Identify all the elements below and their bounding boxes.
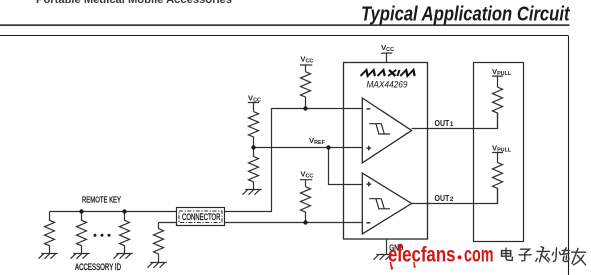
ground under R3 [114, 254, 133, 259]
junction dot remote key / R3 [122, 209, 126, 213]
svg-text:REMOTE KEY: REMOTE KEY [82, 195, 121, 205]
U1A hysteresis symbol [369, 124, 390, 134]
junction dot remote key / R2 [79, 209, 83, 213]
svg-text:VCC: VCC [300, 169, 313, 179]
U1B hysteresis symbol [369, 199, 390, 209]
right page border [568, 36, 570, 275]
svg-text:ACCESSORY ID: ACCESSORY ID [75, 262, 121, 272]
pull-up resistors box [474, 63, 524, 242]
U1B minus sign [366, 222, 370, 224]
resistor R9 (OUT1 pull-up) [493, 87, 503, 128]
op-amp U1A comparator triangle [362, 98, 411, 163]
ground under IC [374, 255, 393, 260]
wire: VREF line to comparator A non-inverting input [254, 147, 363, 149]
junction dot VREF / R5 R6 [251, 145, 255, 149]
U1A plus sign [366, 146, 371, 151]
wire: accessory id lower rail to comparator B inverting input [159, 222, 363, 224]
top rule 2 [0, 35, 568, 37]
watermark red splash dot [398, 244, 403, 249]
U1B plus sign [366, 182, 371, 187]
resistor R1 [45, 212, 55, 254]
junction dot VREF branch [326, 145, 330, 149]
ground under R1 [39, 254, 58, 259]
resistor R5 (VREF divider top) [249, 112, 259, 148]
svg-text:OUT: OUT [435, 118, 450, 128]
op-amp IC U1 MAX44269 box [344, 63, 428, 240]
watermark chinese char fa [536, 247, 550, 262]
watermark chinese char you [572, 248, 586, 264]
wire: REMOTE KEY line [50, 211, 177, 213]
watermark chinese char shao [552, 248, 569, 262]
svg-text:Portable Medical Mobile Access: Portable Medical Mobile Accessories [36, 0, 232, 6]
wire: VREF branch to comparator B non-inverting input [329, 148, 363, 185]
U1A minus sign [366, 108, 370, 110]
svg-text:2: 2 [450, 196, 454, 203]
op-amp U1B comparator triangle [362, 173, 411, 234]
wire: OUT1 from comparator A to pull-up R9 [412, 113, 498, 129]
junction dot R7 / IN A- line [303, 106, 307, 110]
connector J1 inner dash-dot border [179, 211, 222, 223]
svg-text:1: 1 [450, 121, 454, 128]
svg-text:com: com [464, 244, 494, 267]
svg-text:VCC: VCC [381, 43, 394, 53]
wire: OUT2 from comparator B to pull-up R10 [412, 188, 498, 203]
resistor R4 [154, 223, 164, 263]
resistor R8 (accessory id pull-up) [301, 187, 311, 223]
resistor R6 (VREF divider bottom) [249, 148, 259, 190]
svg-text:VCC: VCC [300, 55, 313, 65]
svg-text:CONNECTOR: CONNECTOR [182, 212, 221, 222]
svg-text:elecfans: elecfans [388, 244, 456, 267]
ground under R4 [148, 263, 167, 268]
watermark separator dot [458, 255, 462, 259]
svg-text:VCC: VCC [248, 93, 261, 103]
MAXIM logo [361, 70, 416, 76]
watermark drip under e [390, 262, 391, 267]
top rule 1 [0, 24, 570, 26]
svg-text:VREF: VREF [309, 136, 326, 146]
watermark chinese char zi [519, 249, 531, 261]
watermark chinese char dian [502, 248, 513, 260]
resistor R2 [77, 212, 87, 254]
resistor R10 (OUT2 pull-up) [493, 162, 503, 203]
connector J1 box [177, 208, 225, 226]
svg-text:OUT: OUT [435, 193, 450, 203]
junction dot R8 / lower rail [303, 220, 307, 224]
ground under R2 [71, 254, 90, 259]
ground under R6 [243, 190, 262, 195]
resistor R7 (remote key pull-up) [301, 72, 311, 109]
watermark drip under c [413, 262, 416, 266]
wire: connector to corner and up to comparator A inverting input [225, 109, 363, 212]
svg-text:Typical Application Circuit: Typical Application Circuit [361, 3, 570, 26]
svg-text:MAX44269: MAX44269 [367, 79, 409, 90]
IC ground pin wire [386, 239, 388, 255]
resistor R3 [120, 212, 130, 254]
ellipsis dots between R2 and R3 [94, 234, 111, 237]
